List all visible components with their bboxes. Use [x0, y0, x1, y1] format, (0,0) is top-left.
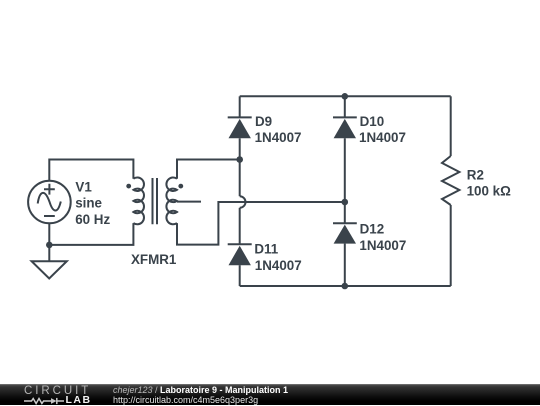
svg-text:V1: V1 [75, 179, 92, 194]
svg-text:R2: R2 [467, 167, 484, 182]
svg-text:D11: D11 [254, 242, 278, 257]
svg-text:1N4007: 1N4007 [255, 130, 302, 145]
svg-text:1N4007: 1N4007 [255, 258, 302, 273]
svg-text:1N4007: 1N4007 [359, 130, 406, 145]
svg-text:XFMR1: XFMR1 [131, 252, 177, 267]
svg-text:D10: D10 [360, 114, 385, 129]
svg-text:60 Hz: 60 Hz [75, 212, 110, 227]
svg-text:sine: sine [75, 196, 102, 211]
svg-text:D9: D9 [255, 114, 272, 129]
svg-text:100 kΩ: 100 kΩ [467, 184, 512, 199]
svg-text:D12: D12 [360, 222, 385, 237]
svg-text:1N4007: 1N4007 [359, 238, 406, 253]
